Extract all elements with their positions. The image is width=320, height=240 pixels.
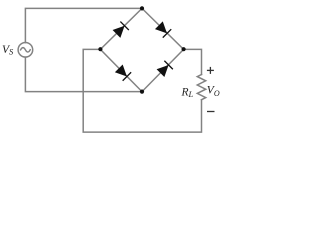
svg-text:RL: RL <box>181 86 194 99</box>
svg-text:VS: VS <box>2 44 14 57</box>
svg-text:VO: VO <box>207 85 220 98</box>
